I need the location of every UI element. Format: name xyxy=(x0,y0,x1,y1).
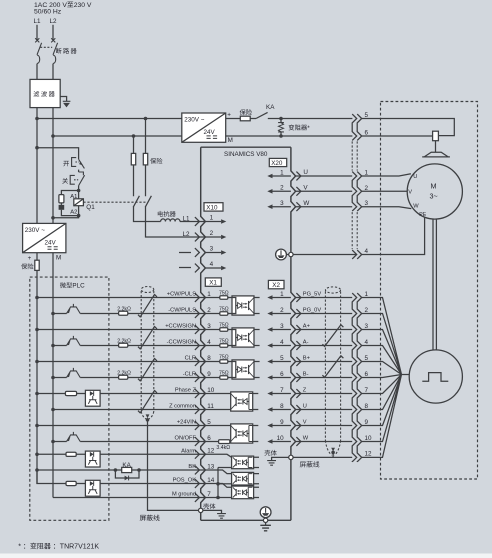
svg-text:X1: X1 xyxy=(209,280,217,287)
PLC row Phase Z with input resistor and opto xyxy=(37,393,205,395)
svg-text:+: + xyxy=(28,255,32,262)
SINAMICS V80 enclosure top edge xyxy=(201,146,291,148)
svg-text:75Ω: 75Ω xyxy=(219,322,229,328)
svg-text:Q1: Q1 xyxy=(86,204,95,211)
floating chevrons on X10/X1 edge xyxy=(195,217,200,502)
svg-text:2: 2 xyxy=(207,307,211,314)
shielded-line label bottom left xyxy=(140,515,146,521)
svg-text:7: 7 xyxy=(207,491,211,498)
svg-text:230V ~: 230V ~ xyxy=(184,117,204,124)
PLC transistor output Q -CW/PULS xyxy=(53,313,205,315)
motor-encoder shaft xyxy=(433,219,436,350)
PLC row POS_OK with resistor and opto xyxy=(37,470,205,484)
wire Alarm to opto U6 xyxy=(205,454,231,457)
motor feed V xyxy=(362,190,408,192)
PLC row Alarm with resistor and opto xyxy=(37,453,205,455)
svg-text:Z common: Z common xyxy=(169,404,196,410)
opto-isolator U5 (+24VIN / ON-OFF) xyxy=(205,426,230,442)
X2 shell node xyxy=(265,450,271,456)
wire filter to bus L1 xyxy=(36,108,38,224)
svg-text:TNR7V121K: TNR7V121K xyxy=(60,544,100,551)
svg-text:7: 7 xyxy=(365,387,369,394)
svg-text:9: 9 xyxy=(365,419,369,426)
opto-isolator U2 (pins 3/4) xyxy=(232,328,254,347)
motor feed W xyxy=(362,207,412,209)
flyback diode for KA xyxy=(115,470,139,478)
svg-text:8: 8 xyxy=(365,403,369,410)
micro PLC dashed box xyxy=(30,277,109,520)
svg-text:8: 8 xyxy=(207,355,211,362)
resistor 2.2k xyxy=(119,311,128,315)
contactor contact Q1 pole A xyxy=(133,196,139,207)
opto-isolator U6 (Alarm) xyxy=(232,456,254,469)
svg-text:KA: KA xyxy=(266,104,275,111)
svg-text:2: 2 xyxy=(365,307,369,314)
shield line to encoder cable pin 12 xyxy=(293,456,352,458)
bus 1 (L1 phase) xyxy=(37,118,182,120)
svg-text:POS_OK: POS_OK xyxy=(173,478,197,484)
svg-text:A2: A2 xyxy=(70,209,77,215)
encoder cable connector column (pins 1-10,12) xyxy=(352,293,357,462)
resistor 75ohm X1 pin 2 xyxy=(205,313,232,315)
svg-text:+: + xyxy=(227,111,231,118)
svg-text:230 V: 230 V xyxy=(74,2,92,9)
PLC row M ground from M rail xyxy=(53,497,205,499)
svg-text:PG_5V: PG_5V xyxy=(303,292,322,298)
svg-text:1: 1 xyxy=(210,215,214,222)
svg-text:11: 11 xyxy=(207,403,214,410)
svg-text:6: 6 xyxy=(365,371,369,378)
svg-text:B+: B+ xyxy=(303,356,311,362)
svg-text:-CCWSIGN: -CCWSIGN xyxy=(167,340,196,346)
PLC transistor output Q -CLR xyxy=(53,377,205,379)
svg-text:U: U xyxy=(413,174,417,180)
switch contact KA xyxy=(256,112,268,118)
svg-text:W: W xyxy=(303,200,309,207)
branch to start/stop buttons xyxy=(37,148,79,160)
encoder circle xyxy=(409,350,462,403)
svg-text:L2: L2 xyxy=(50,18,58,25)
resistor 75ohm X1 pin 4 xyxy=(205,345,232,347)
svg-text:3: 3 xyxy=(280,200,284,207)
PLC transistor output Q -CCW/SIGN xyxy=(53,345,205,347)
varistor xyxy=(279,117,283,121)
svg-text:BK: BK xyxy=(188,464,196,470)
svg-text:5: 5 xyxy=(280,355,284,362)
svg-text:75Ω: 75Ω xyxy=(219,306,229,312)
fuse on wire B xyxy=(143,153,147,165)
brake wire 5 xyxy=(362,119,455,136)
svg-text:+CW/PULS: +CW/PULS xyxy=(167,292,196,298)
svg-text:3: 3 xyxy=(207,323,211,330)
shield tube around PLC signal cable xyxy=(141,287,154,293)
svg-text:5: 5 xyxy=(207,419,211,426)
V80 left edge with X10 and X1 connector jogs xyxy=(201,147,206,520)
svg-text:M: M xyxy=(56,255,61,262)
svg-text:6: 6 xyxy=(280,371,284,378)
opto-isolator U8 (POS_OK) xyxy=(232,486,254,499)
svg-text:12: 12 xyxy=(207,448,215,455)
svg-text:U: U xyxy=(303,169,308,176)
twisted pair CW/PULS xyxy=(138,294,157,317)
opto-isolator U3 (pins 8/9) xyxy=(232,360,254,379)
svg-text:24V: 24V xyxy=(45,240,57,247)
svg-text:9: 9 xyxy=(280,419,284,426)
coil to contacts dashed control link xyxy=(83,201,145,203)
wire breaker to filter L1 xyxy=(36,64,38,80)
svg-text:L1: L1 xyxy=(34,18,42,25)
svg-text:Phase Z: Phase Z xyxy=(175,388,197,394)
fuse (baoxian) xyxy=(240,116,250,121)
line filter box xyxy=(30,79,60,107)
svg-text:3.4kΩ: 3.4kΩ xyxy=(216,445,230,451)
svg-text:4: 4 xyxy=(207,339,211,346)
PLC opto (Alarm receiver) xyxy=(85,451,100,467)
svg-text:+CCWSIGN: +CCWSIGN xyxy=(165,324,196,330)
wire POS_OK to opto U8 xyxy=(205,484,231,488)
+24V wire with fuse xyxy=(226,118,256,120)
protective earth symbol at X20 xyxy=(276,249,287,260)
svg-text:7: 7 xyxy=(280,387,284,394)
svg-text:W: W xyxy=(303,436,309,442)
M rail xyxy=(52,253,54,498)
svg-text:B-: B- xyxy=(303,372,309,378)
svg-text:ON/OFF: ON/OFF xyxy=(175,436,197,442)
floating chevrons on X20/X2 edge xyxy=(296,172,301,446)
power supply 230V/24V (top) xyxy=(182,113,226,142)
X10 unconnected stubs pins 3,4 xyxy=(179,253,191,268)
resistor 3.4kohm on ON/OFF xyxy=(219,440,230,444)
svg-text:A+: A+ xyxy=(303,324,311,330)
svg-text:U: U xyxy=(303,404,307,410)
wire M ground pin 7 xyxy=(205,497,218,499)
PLC row +CCW/SIGN xyxy=(37,329,205,331)
PLC opto (POS_OK receiver) xyxy=(85,480,100,496)
svg-text:M: M xyxy=(431,181,437,190)
svg-text:Z: Z xyxy=(303,388,307,394)
svg-text:PG_0V: PG_0V xyxy=(303,308,322,314)
svg-text:-CW/PULS: -CW/PULS xyxy=(168,308,196,314)
svg-text:W: W xyxy=(413,203,419,209)
svg-text:75Ω: 75Ω xyxy=(219,354,229,360)
shielded-line label (ping bi xian) xyxy=(300,461,306,467)
svg-text:2.2kΩ: 2.2kΩ xyxy=(117,338,131,344)
motor cable connector column (pins 5,6,1,2,3,4) xyxy=(352,114,357,259)
twisted pair CCW/SIGN xyxy=(138,326,157,349)
encoder cable fan-in wires xyxy=(362,298,410,458)
svg-text:2: 2 xyxy=(280,307,284,314)
X20 earth pin: PE node on edge xyxy=(286,254,356,256)
PLC row CLR xyxy=(37,361,205,363)
svg-text:A-: A- xyxy=(303,340,309,346)
fuse on +24V xyxy=(36,253,38,297)
svg-text:2: 2 xyxy=(280,185,284,192)
svg-text:M ground: M ground xyxy=(172,492,196,498)
svg-text:2: 2 xyxy=(210,230,214,237)
PLC row BK with relay KA xyxy=(37,469,139,471)
svg-text:75Ω: 75Ω xyxy=(219,338,229,344)
svg-text:L2: L2 xyxy=(183,231,191,238)
svg-text:12: 12 xyxy=(365,451,373,458)
X1 shell node (kei ti) xyxy=(203,503,209,509)
svg-text:CLR: CLR xyxy=(185,356,196,362)
svg-text:-CLR: -CLR xyxy=(183,372,196,378)
svg-text:3: 3 xyxy=(280,323,284,330)
wire breaker to filter L2 xyxy=(52,64,54,80)
svg-text:50/60 Hz: 50/60 Hz xyxy=(34,9,62,16)
V80 right edge with X20 and X2 connector jogs xyxy=(291,147,296,520)
svg-text:3: 3 xyxy=(365,323,369,330)
svg-text:6: 6 xyxy=(207,435,211,442)
shield drain dot on shell line xyxy=(331,448,335,452)
X2 shell ground xyxy=(272,457,289,460)
opto-isolator U4 (Phase Z / Z common) xyxy=(205,394,230,410)
motor M 3~ xyxy=(407,164,462,219)
snubber resistor xyxy=(59,195,64,203)
X1 shell ground xyxy=(203,510,222,513)
snubber capacitor (filled) xyxy=(59,205,65,210)
contactor coil Q1 xyxy=(74,199,84,206)
svg-text:4: 4 xyxy=(365,339,369,346)
brake wire 6 xyxy=(362,135,433,137)
svg-text:M: M xyxy=(228,137,233,144)
opto-isolator U7 (BK) xyxy=(232,472,254,485)
svg-text:L1: L1 xyxy=(183,215,191,222)
svg-text:75Ω: 75Ω xyxy=(219,290,229,296)
svg-text:+24VIN: +24VIN xyxy=(177,420,196,426)
twisted pair CLR xyxy=(138,358,157,381)
svg-text:4: 4 xyxy=(280,339,284,346)
wire BK to opto U7 xyxy=(139,470,232,474)
svg-text:SINAMICS V80: SINAMICS V80 xyxy=(224,151,268,158)
svg-text:9: 9 xyxy=(207,371,211,378)
svg-text:2.2kΩ: 2.2kΩ xyxy=(117,306,131,312)
PLC row ON/OFF with contact xyxy=(53,441,205,443)
V80 bottom edge xyxy=(201,519,291,521)
motor feed U xyxy=(362,174,411,176)
resistor 75ohm X1 pin 8 xyxy=(205,361,232,363)
svg-text:*: * xyxy=(18,544,21,551)
svg-text:1: 1 xyxy=(280,291,284,298)
wire filter to bus L2 xyxy=(52,108,54,224)
encoder pulse symbol xyxy=(422,373,448,382)
wire L1 down to breaker xyxy=(36,25,38,40)
svg-text:10: 10 xyxy=(277,435,285,442)
fuse on wire A xyxy=(131,153,135,165)
contactor contact Q1 pole B xyxy=(145,196,151,207)
svg-text:13: 13 xyxy=(207,463,215,470)
branch wire B from bus1 xyxy=(146,119,206,238)
brake shoe xyxy=(422,152,450,157)
common emitter tie wire xyxy=(217,468,219,498)
svg-text:V: V xyxy=(408,190,412,196)
brake solenoid xyxy=(433,131,439,141)
svg-text:PLC: PLC xyxy=(72,283,85,290)
svg-text:14: 14 xyxy=(207,477,215,484)
resistor 75ohm X1 pin 1 xyxy=(205,297,232,299)
svg-text:2.2kΩ: 2.2kΩ xyxy=(117,370,131,376)
svg-text:3~: 3~ xyxy=(430,192,438,201)
line reactor xyxy=(158,211,163,217)
PLC row +CW/PULS xyxy=(37,297,205,299)
svg-text:Alarm: Alarm xyxy=(181,449,196,455)
svg-text:X20: X20 xyxy=(271,160,283,167)
twisted pair symbol A+/A- xyxy=(322,324,343,346)
filter ground xyxy=(60,97,66,102)
svg-text:8: 8 xyxy=(280,403,284,410)
M wire to brake connector xyxy=(226,135,353,137)
svg-text:75Ω: 75Ω xyxy=(219,370,229,376)
connector label X10 xyxy=(204,203,223,211)
svg-text:4: 4 xyxy=(210,261,214,268)
twisted pair Phase Z xyxy=(138,390,157,413)
PLC opto (Phase Z receiver) xyxy=(85,390,100,406)
resistor 75ohm X1 pin 9 xyxy=(205,377,232,379)
svg-text:1: 1 xyxy=(365,291,369,298)
shield tube around encoder signal cable xyxy=(325,287,340,293)
svg-text:PE: PE xyxy=(419,212,426,218)
RC snubber branch xyxy=(61,191,78,195)
motor unit dashed enclosure xyxy=(381,102,478,480)
shield drain wire down to shell xyxy=(148,420,199,511)
branch wire A from bus2 xyxy=(134,136,161,222)
svg-text:X10: X10 xyxy=(206,205,218,212)
svg-text:1: 1 xyxy=(280,169,284,176)
connector label X1 xyxy=(205,278,221,286)
svg-text:10: 10 xyxy=(207,387,215,394)
center earth of V80 bottom xyxy=(260,507,271,518)
pushbutton OFF (guan) xyxy=(62,178,68,184)
opto-isolator U1 (pins 1/2) xyxy=(232,296,254,315)
svg-text:X2: X2 xyxy=(272,282,280,289)
twisted pair symbol B+/B- xyxy=(322,355,343,377)
svg-text:230V ~: 230V ~ xyxy=(25,227,45,234)
power supply 230V/24V (left) xyxy=(23,223,66,252)
circuit breaker (two poles, x contacts, dashed link) xyxy=(35,38,57,63)
+24V rail xyxy=(36,297,38,485)
svg-text:5: 5 xyxy=(365,355,369,362)
pushbutton ON (kai) xyxy=(63,161,69,166)
svg-text:1: 1 xyxy=(207,291,211,298)
wire L2 down to breaker xyxy=(52,25,54,40)
svg-text:10: 10 xyxy=(365,435,373,442)
svg-text:V: V xyxy=(303,420,307,426)
connector label X2 xyxy=(268,280,284,288)
svg-text:24V: 24V xyxy=(204,129,216,136)
PE wire to motor xyxy=(362,217,425,255)
bus 2 (L2 phase) xyxy=(53,135,182,137)
resistor 75ohm X1 pin 3 xyxy=(205,329,232,331)
connector label X20 xyxy=(269,158,286,166)
svg-text:3: 3 xyxy=(210,246,214,253)
PLC row Z common xyxy=(53,409,205,411)
PLC row +24VIN xyxy=(37,425,205,427)
